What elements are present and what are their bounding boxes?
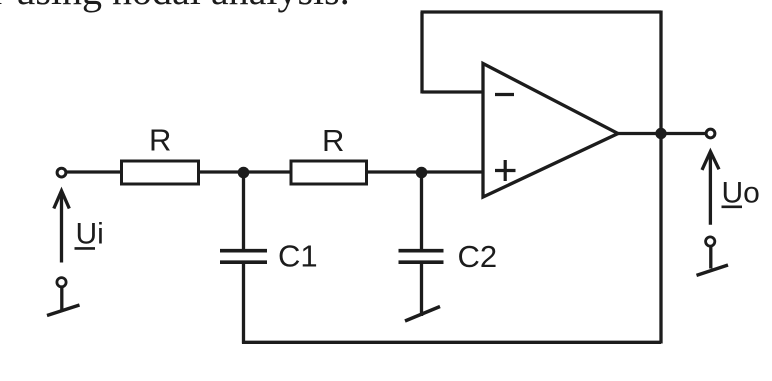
capacitor C1 bottom lead (242, 263, 245, 344)
wire: node B to op-amp + input (422, 170, 484, 173)
svg-text:C2: C2 (458, 239, 498, 274)
input reference slash (47, 305, 80, 316)
output reference terminal (706, 237, 715, 269)
wire: node A to R2 (244, 170, 292, 173)
wire: output right vertical (659, 11, 662, 344)
label Ui (75, 218, 104, 251)
label Uo (722, 176, 760, 209)
svg-text:Ui: Ui (76, 218, 104, 251)
output terminal (706, 129, 715, 138)
wire: R2 to node B (367, 170, 422, 173)
op-amp inverting input marker - (495, 93, 514, 96)
input terminal (57, 168, 66, 177)
wire: node C to output terminal (661, 132, 706, 135)
wire: feedback left vertical (420, 12, 423, 94)
capacitor C1 top lead (242, 173, 245, 251)
capacitor C1 (220, 251, 267, 263)
op-amp non-inverting input marker + (495, 160, 516, 181)
wire: op-amp output to node C (618, 132, 661, 135)
svg-text:r using nodal analysis.: r using nodal analysis. (0, 0, 350, 13)
svg-text:Uo: Uo (722, 176, 760, 209)
capacitor C2 bottom lead (420, 263, 423, 316)
svg-text:R: R (149, 123, 171, 158)
svg-text:R: R (322, 123, 344, 158)
op-amp U1 (483, 64, 618, 198)
wire: bottom rail (242, 341, 661, 344)
arrow Uo (702, 152, 719, 225)
wire: R1 to node A (199, 170, 244, 173)
input reference terminal (57, 278, 66, 310)
capacitor C2 top lead (420, 173, 423, 251)
node B junction (416, 167, 428, 179)
wire: feedback top rail (421, 10, 662, 13)
wire: feedback to op-amp inverting input (422, 90, 483, 93)
ground slash (C2) (405, 307, 440, 322)
arrow Ui (54, 191, 70, 263)
resistor R1 (122, 161, 199, 184)
node C junction (655, 128, 666, 139)
output reference slash (697, 265, 729, 275)
svg-text:C1: C1 (278, 239, 318, 274)
capacitor C2 (399, 251, 444, 263)
wire: input terminal to R1 (66, 170, 122, 173)
resistor R2 (291, 161, 367, 184)
node A junction (238, 167, 250, 179)
